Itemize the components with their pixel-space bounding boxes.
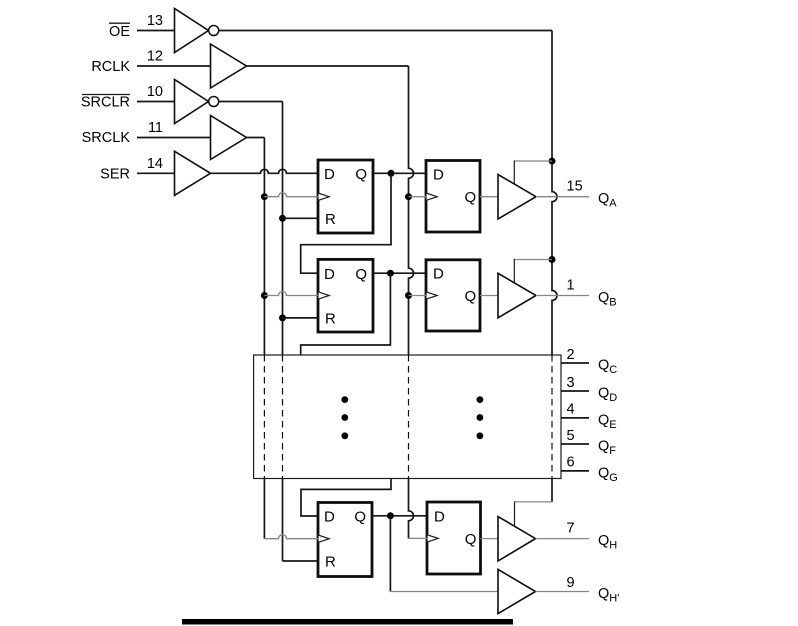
wire FF3 clock (hops SRCLR bus) bbox=[264, 292, 318, 296]
wire QA output line bbox=[536, 196, 589, 198]
junction FF3 Q node bbox=[387, 270, 394, 277]
wire QG stub bbox=[561, 470, 589, 472]
buffer U8 (QH output) bbox=[498, 517, 536, 562]
svg-text:10: 10 bbox=[147, 84, 163, 100]
node SRCLR label bbox=[81, 94, 130, 110]
svg-text:R: R bbox=[325, 211, 336, 228]
wire buffer H enable vertical bbox=[514, 501, 516, 526]
junction SRCLK to FF1 clock bbox=[261, 193, 268, 200]
svg-text:6: 6 bbox=[567, 455, 575, 471]
junction SRCLR to FF1 R bbox=[279, 215, 286, 222]
svg-text:14: 14 bbox=[147, 156, 163, 172]
svg-text:11: 11 bbox=[148, 120, 163, 136]
wire buffer A enable vertical bbox=[513, 160, 515, 183]
svg-text:D: D bbox=[433, 266, 444, 283]
svg-text:SER: SER bbox=[100, 166, 130, 182]
flip-flop FF2 (storage A) bbox=[426, 161, 480, 233]
inverter U1 (OE) bbox=[175, 9, 219, 53]
svg-text:9: 9 bbox=[567, 575, 575, 591]
svg-text:SRCLR: SRCLR bbox=[81, 94, 130, 110]
buffer U7 (QB output) bbox=[498, 273, 536, 318]
wire FF6 Q to buffer bbox=[481, 538, 499, 540]
svg-text:Q: Q bbox=[354, 509, 366, 526]
wire OE inverter output to right bbox=[219, 30, 552, 32]
svg-text:12: 12 bbox=[147, 49, 163, 65]
buffer U5 (SER) bbox=[175, 151, 211, 195]
wire RCLK input bbox=[137, 65, 211, 67]
svg-text:7: 7 bbox=[567, 521, 575, 537]
node OE label bbox=[109, 23, 130, 40]
wire buffer B enable horizontal bbox=[514, 259, 552, 261]
svg-text:RCLK: RCLK bbox=[91, 59, 130, 75]
wire QE stub bbox=[561, 417, 589, 419]
svg-text:5: 5 bbox=[567, 428, 575, 444]
wire OE input bbox=[137, 30, 175, 32]
svg-text:D: D bbox=[433, 166, 444, 183]
wire QB output line bbox=[536, 295, 589, 297]
junction RCLK to FF4 clock bbox=[405, 292, 412, 299]
wire SRCLR input bbox=[137, 101, 175, 103]
wire FF3 R bbox=[283, 317, 319, 319]
svg-text:Q: Q bbox=[465, 288, 477, 305]
wire SRCLR bus vertical bbox=[282, 102, 284, 356]
wire QH' output line bbox=[536, 591, 590, 593]
buffer U6 (QA output) bbox=[498, 175, 536, 220]
junction FF1 Q node bbox=[388, 170, 395, 177]
wire FF3 Q feedback into dashed box (FF C) bbox=[301, 273, 391, 355]
wire FF4 clock bbox=[409, 295, 427, 297]
svg-text:2: 2 bbox=[567, 347, 575, 363]
wire SER buffer output to FF1 D (hops over SRCLK and SRCLR buses) bbox=[211, 169, 319, 173]
inverter U3 (SRCLR) bbox=[175, 80, 219, 124]
svg-text:Q: Q bbox=[355, 166, 367, 183]
svg-text:D: D bbox=[434, 509, 445, 526]
wire buffer A enable horizontal bbox=[514, 160, 552, 162]
svg-text:Q: Q bbox=[355, 266, 367, 283]
svg-text:OE: OE bbox=[109, 24, 130, 40]
svg-text:R: R bbox=[325, 311, 336, 328]
flip-flop FF3 (shift B) bbox=[318, 259, 373, 332]
wire SER input bbox=[137, 172, 175, 174]
svg-text:D: D bbox=[324, 166, 335, 183]
junction OE to buffer B enable bbox=[549, 256, 556, 263]
svg-text:SRCLK: SRCLK bbox=[82, 130, 131, 146]
svg-text:Q: Q bbox=[465, 189, 477, 206]
wire RCLK buffer output bbox=[247, 65, 409, 67]
ellipsis dots right column bbox=[477, 396, 484, 439]
wire SRCLK input bbox=[137, 137, 211, 139]
junction FF5 Q node bbox=[387, 512, 394, 519]
bottom rule bar bbox=[182, 619, 513, 625]
flip-flop FF5 (shift H) bbox=[318, 503, 372, 577]
wire FF2 clock bbox=[409, 196, 427, 198]
wire buffer B enable vertical bbox=[513, 259, 515, 282]
svg-text:R: R bbox=[325, 554, 336, 571]
wire QF stub bbox=[561, 443, 589, 445]
wire FF1 R bbox=[283, 217, 319, 219]
wire buffer H enable horizontal bbox=[515, 501, 553, 503]
svg-text:13: 13 bbox=[147, 13, 163, 29]
flip-flop FF1 (shift A) bbox=[318, 160, 373, 233]
wire FF1 Q feedback to FF2 D bbox=[301, 173, 391, 273]
wire QD stub bbox=[561, 390, 589, 392]
wire FF5 Q down to QH' buffer input (vertical) bbox=[389, 516, 391, 592]
svg-text:3: 3 bbox=[567, 375, 575, 391]
wire RCLK bus vertical (hops over FF D lines) bbox=[409, 66, 414, 355]
wire FF G Q feedback to FF5 D bbox=[301, 479, 391, 517]
svg-text:Q: Q bbox=[465, 531, 477, 548]
wire SRCLK bus corner to FF5 clock (hops SRCLR bus) bbox=[264, 535, 318, 539]
buffer U9 (QH' output) bbox=[498, 569, 536, 613]
wire FF4 Q to buffer bbox=[480, 295, 498, 297]
junction SRCLK to FF3 clock bbox=[261, 292, 268, 299]
wire QH output line bbox=[536, 538, 590, 540]
wire RCLK bus corner to FF6 clock bbox=[409, 537, 428, 539]
junction SRCLR to FF3 R bbox=[279, 314, 286, 321]
svg-text:1: 1 bbox=[567, 278, 575, 294]
wire SRCLK buffer output bbox=[247, 137, 265, 139]
wire FF2 Q to buffer bbox=[480, 196, 498, 198]
junction OE to buffer A enable bbox=[549, 158, 556, 165]
buffer U2 (RCLK) bbox=[211, 44, 247, 88]
junction RCLK to FF2 clock bbox=[405, 193, 412, 200]
ellipsis dots left column bbox=[341, 396, 348, 439]
wire SRCLR bus corner to FF5 R bbox=[283, 560, 319, 562]
wire SRCLR inverter output bbox=[219, 101, 283, 103]
wire FF3 Q output bbox=[373, 272, 426, 274]
wire FF5 Q output bbox=[372, 515, 427, 517]
flip-flop FF4 (storage B) bbox=[426, 260, 480, 331]
wire QC stub bbox=[561, 362, 589, 364]
buffer U4 (SRCLK) bbox=[211, 116, 247, 160]
svg-text:4: 4 bbox=[567, 402, 575, 418]
wire FF1 Q output bbox=[373, 172, 426, 174]
svg-text:D: D bbox=[324, 509, 335, 526]
wire SRCLK bus vertical bbox=[263, 138, 265, 356]
svg-text:D: D bbox=[324, 266, 335, 283]
wire FF1 clock (hops SRCLR bus) bbox=[264, 193, 318, 197]
flip-flop FF6 (storage H) bbox=[427, 502, 481, 574]
wire OE bus vertical (hops over output lines) bbox=[552, 31, 557, 356]
wire QH' buffer input (horizontal) bbox=[390, 591, 498, 593]
svg-text:15: 15 bbox=[567, 179, 583, 195]
box stages C to G bbox=[254, 355, 561, 479]
